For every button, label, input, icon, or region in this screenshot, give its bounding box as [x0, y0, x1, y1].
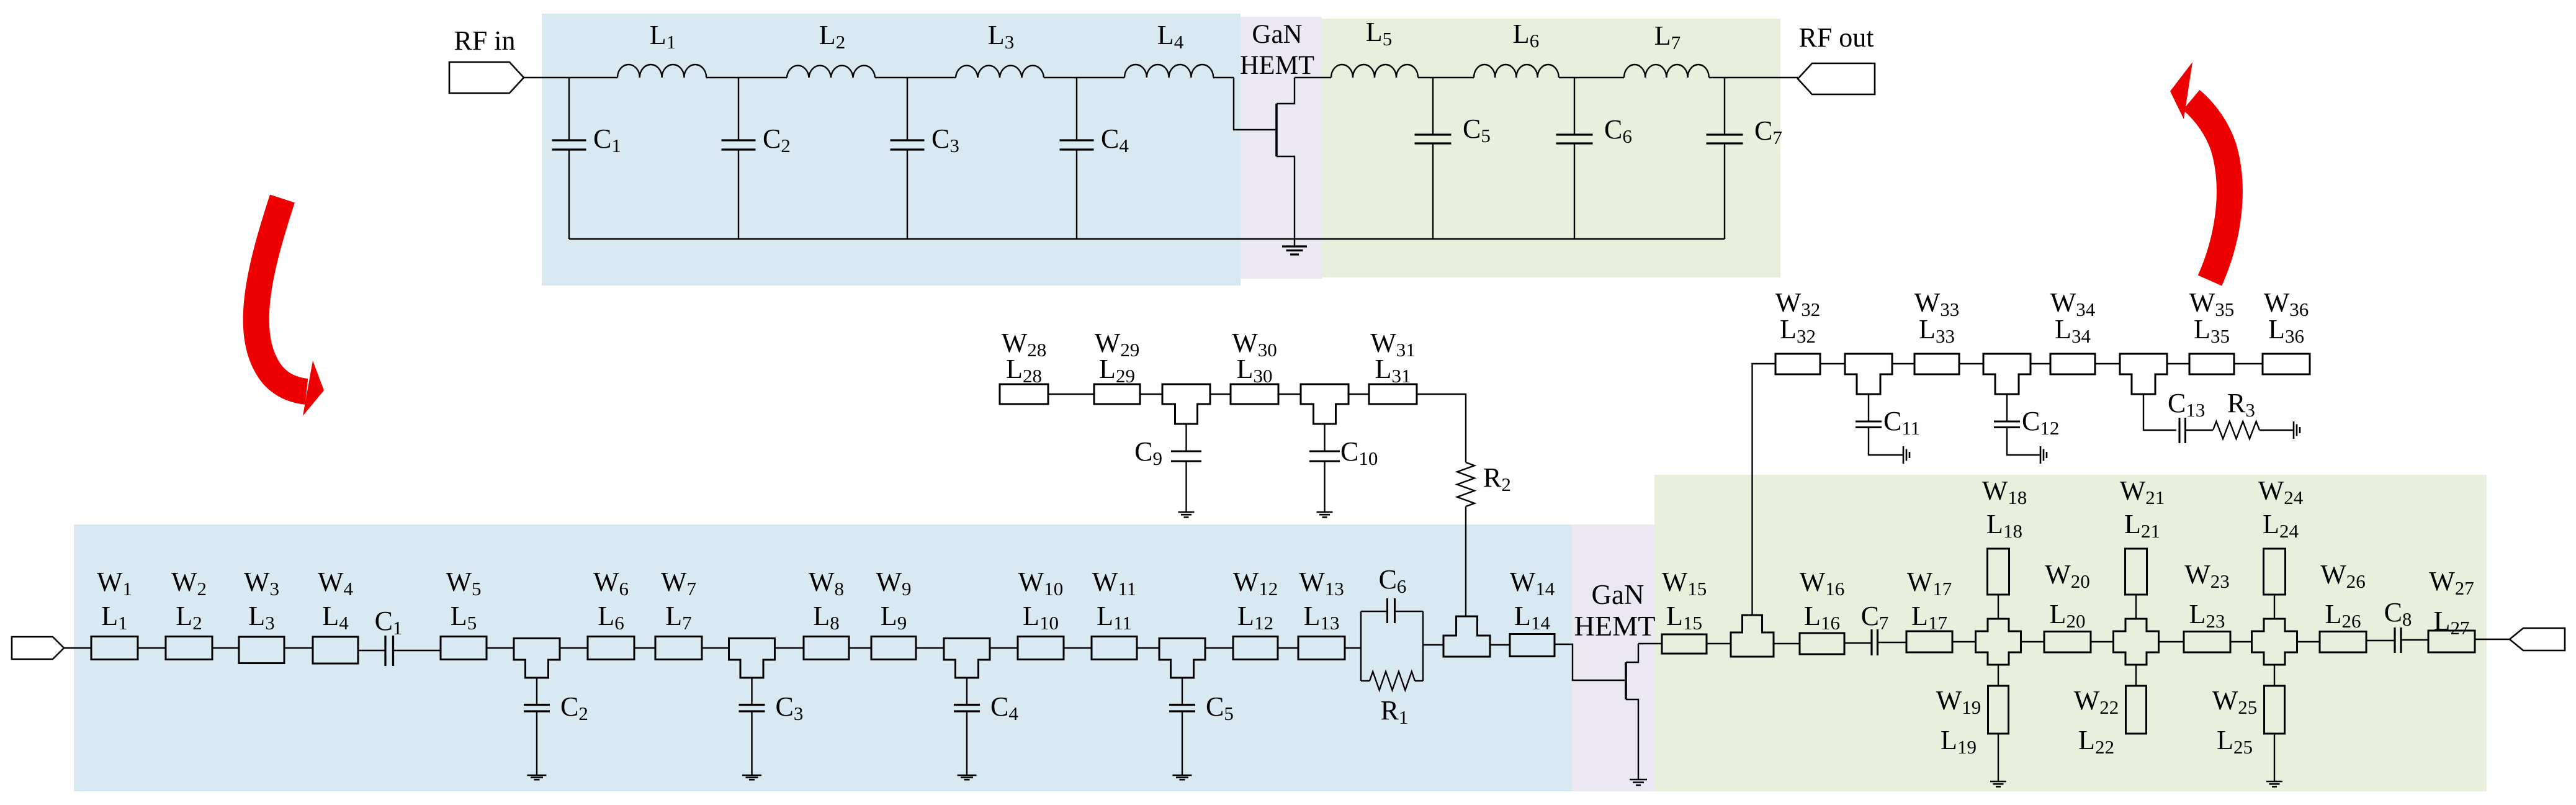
ground under W19	[1990, 781, 2006, 783]
microstrip line W/L3	[239, 637, 284, 663]
inductor L2	[787, 66, 875, 78]
wire W25 to ground	[2274, 734, 2275, 781]
wire W15-T6	[1707, 643, 1731, 644]
wire W35-W36	[2234, 363, 2263, 364]
wire cross to W19	[1998, 664, 1999, 686]
ground under W25	[2266, 781, 2282, 783]
capacitor C6 (in R1C6)	[1386, 598, 1388, 623]
wire L1 to L2	[706, 77, 787, 78]
capacitor C12 (shunt)	[1994, 421, 2020, 423]
wire W5-T1	[487, 647, 514, 649]
inductor L4	[1124, 65, 1213, 78]
wire stub to C2	[536, 678, 537, 705]
parallel R1 C6 network	[1360, 611, 1362, 681]
background: microstrip output network (green)	[1654, 475, 2487, 791]
tee junction T8 (C10)	[1301, 384, 1349, 424]
capacitor C10 (shunt)	[1309, 451, 1340, 452]
wire W16-C7	[1844, 642, 1872, 644]
wire stub to C5	[1182, 678, 1183, 705]
capacitor C7 (shunt)	[1724, 78, 1725, 135]
wire cross to W21	[2135, 595, 2137, 618]
port RF out	[1798, 63, 1875, 94]
cross junction at W24/W25	[2252, 619, 2297, 665]
tee junction T9 (C11)	[1845, 354, 1892, 394]
wire W2-W3	[212, 647, 239, 649]
microstrip line W/L2	[166, 637, 212, 660]
ground under C10	[1317, 511, 1333, 513]
tee junction T10 (C12)	[1983, 354, 2031, 394]
wire W29-T7	[1140, 394, 1162, 395]
wire W11-T4	[1137, 647, 1160, 649]
wire T11-W35	[2167, 363, 2189, 364]
port output (lower)	[2510, 628, 2565, 650]
wire C8-W27	[2401, 639, 2428, 641]
microstrip line W/L15	[1662, 634, 1707, 654]
wire W26-C8	[2366, 640, 2395, 641]
wire W23-X3	[2230, 641, 2251, 642]
tee junction at C5	[1159, 639, 1205, 678]
wire R3 to ground	[2260, 429, 2294, 431]
microstrip line W29/L29	[1094, 384, 1140, 404]
capacitor C8 (series)	[2394, 627, 2395, 653]
tee junction T6 (to drain bias)	[1731, 615, 1774, 657]
tee junction T11 (C13/R3)	[2120, 354, 2167, 394]
wire W4-C1	[358, 650, 385, 651]
wire T1-W6	[560, 647, 588, 649]
wire W14 to gate of U2	[1555, 644, 1626, 680]
wire W12-W13	[1278, 647, 1298, 649]
svg-text:GaN: GaN	[1252, 20, 1302, 49]
wire X1-W20	[2021, 641, 2044, 642]
ground under C3	[742, 775, 761, 776]
microstrip line W/L12	[1233, 637, 1278, 660]
cross junction at W21/W22	[2114, 619, 2159, 665]
ground of U1	[1282, 245, 1307, 247]
wire cross to W25	[2274, 664, 2275, 686]
wire drain U2 to W15	[1638, 643, 1662, 644]
wire T10 to C12	[2006, 394, 2008, 421]
microstrip line W/L5	[441, 637, 487, 660]
ground under C4	[958, 775, 977, 776]
inductor L5	[1331, 65, 1418, 78]
microstrip line W/L13	[1298, 637, 1345, 660]
ground of C11 (rotated)	[1903, 446, 1905, 464]
microstrip line W35/L35	[2189, 354, 2234, 374]
capacitor C7 (series)	[1870, 629, 1872, 655]
wire T5-W14	[1490, 644, 1510, 645]
wire T11 to C13	[2143, 394, 2176, 430]
red arrow (left, pointing down-right)	[256, 199, 307, 392]
capacitor C5 (shunt)	[1169, 704, 1195, 706]
microstrip line W/L20	[2044, 632, 2091, 653]
wire C7-W17	[1878, 642, 1907, 643]
wire T3-W10	[990, 647, 1018, 649]
wire T2-W8	[774, 647, 804, 649]
wire W17-X1	[1952, 641, 1975, 642]
wire L4 to gate of U1	[1213, 77, 1234, 78]
background: microstrip input network (blue)	[74, 524, 1572, 791]
ground under C2	[527, 775, 547, 776]
microstrip line W34/L34	[2050, 354, 2095, 374]
wire X2-W23	[2158, 641, 2184, 642]
ground of R3 (rotated)	[2293, 421, 2295, 439]
wire stub to C3	[751, 678, 752, 705]
wire RF in to L1	[524, 77, 617, 78]
microstrip stub W22	[2126, 686, 2147, 734]
wire T7 to C9	[1185, 424, 1187, 451]
capacitor C6 (shunt)	[1574, 78, 1575, 135]
wire cross to W18	[1998, 595, 1999, 618]
wire W19 to ground	[1998, 734, 1999, 781]
wire stub to C4	[966, 678, 967, 705]
background: output matching network (green)	[1322, 19, 1780, 277]
wire W1-W2	[138, 647, 166, 649]
wire W8-W9	[849, 647, 871, 649]
wire C1-W5	[393, 650, 441, 651]
inductor L6	[1474, 65, 1559, 78]
capacitor C2 (shunt)	[738, 78, 739, 140]
wire L7 to RF out	[1709, 77, 1798, 78]
microstrip line W/L7	[655, 637, 702, 660]
wire W7-T2	[702, 647, 729, 649]
capacitor C2 (shunt)	[524, 704, 550, 706]
microstrip line W/L26	[2320, 632, 2366, 653]
wire W10-W11	[1064, 647, 1092, 649]
tee junction at C3	[729, 639, 775, 678]
microstrip stub W21	[2125, 549, 2147, 595]
ground of U2	[1630, 779, 1647, 781]
microstrip line W/L6	[588, 637, 634, 660]
capacitor C11 (shunt)	[1856, 421, 1882, 423]
capacitor C3 (shunt)	[739, 704, 765, 706]
microstrip line W/L9	[871, 637, 916, 660]
microstrip line W/L16	[1800, 633, 1844, 654]
transistor U1 GaN HEMT (top)	[1234, 78, 1277, 130]
wire W3-W4	[284, 647, 313, 649]
microstrip line W/L1	[91, 637, 138, 660]
wire C13-R3	[2186, 429, 2214, 431]
wire W20-X2	[2091, 641, 2113, 642]
wire W27 to output port	[2475, 639, 2510, 640]
capacitor C1 (shunt)	[568, 78, 570, 140]
wire T9 to C11	[1868, 394, 1869, 421]
wire T9-W33	[1892, 363, 1914, 364]
wire W34-T11	[2095, 363, 2120, 364]
inductor L1	[617, 65, 706, 78]
wire cross to W22	[2135, 664, 2137, 686]
capacitor C4 (shunt)	[954, 704, 980, 706]
microstrip line W32/L32	[1775, 354, 1820, 374]
microstrip line W/L27	[2428, 631, 2475, 652]
microstrip line W31/L31	[1369, 384, 1417, 404]
capacitor C4 (shunt)	[1076, 78, 1077, 140]
background: GaN HEMT region (lavender)	[1241, 17, 1322, 279]
wire W30-T8	[1278, 394, 1301, 395]
wire T4-W12	[1205, 647, 1233, 649]
microstrip line W33/L33	[1914, 354, 1959, 374]
capacitor C3 (shunt)	[907, 78, 908, 140]
port input (lower)	[12, 637, 64, 659]
wire W6-W7	[634, 647, 655, 649]
microstrip line W/L8	[804, 637, 849, 660]
microstrip line W/L17	[1906, 631, 1952, 652]
capacitor C1 (series)	[384, 636, 386, 666]
microstrip line W30/L30	[1231, 384, 1278, 404]
microstrip line W28/L28	[1000, 384, 1048, 404]
cross junction at W18/W19	[1976, 619, 2021, 665]
background: input matching network (blue)	[542, 14, 1241, 286]
svg-text:HEMT: HEMT	[1574, 611, 1656, 642]
ground under C9	[1178, 511, 1195, 513]
resistor R1	[1361, 680, 1370, 681]
wire W31 to R2	[1417, 394, 1466, 462]
tee junction T5 (to gate bias)	[1443, 616, 1490, 657]
resistor R2	[1457, 462, 1474, 506]
capacitor C9 (shunt)	[1171, 451, 1201, 452]
wire X3-W26	[2297, 641, 2320, 642]
ground under C5	[1173, 775, 1192, 776]
microstrip line W/L23	[2184, 632, 2230, 653]
capacitor C13 (series)	[2179, 418, 2181, 443]
ground bus wire (top)	[569, 238, 1725, 240]
wire T7-W30	[1210, 394, 1231, 395]
wire W9-T3	[916, 647, 944, 649]
wire W33-T10	[1959, 363, 1983, 364]
wire T6-W16	[1774, 643, 1800, 644]
wire port to W1	[64, 647, 91, 649]
microstrip line W36/L36	[2263, 354, 2310, 374]
wire R2 to T5 stub	[1465, 506, 1466, 616]
background: GaN HEMT region lower (lavender)	[1572, 524, 1654, 791]
microstrip line W/L14	[1510, 634, 1555, 657]
port RF in	[449, 62, 524, 93]
microstrip stub W18	[1988, 549, 2009, 595]
wire T8 to C10	[1324, 424, 1325, 451]
wire drain of U1 to L5	[1295, 77, 1331, 78]
resistor R3	[2213, 421, 2260, 439]
wire L5 to L6	[1418, 77, 1474, 78]
transistor U2 GaN HEMT (lower)	[1625, 662, 1627, 699]
wire L6 to L7	[1559, 77, 1624, 78]
ground of C12 (rotated)	[2040, 446, 2042, 464]
microstrip stub W25	[2264, 686, 2285, 734]
wire cross to W24	[2274, 595, 2275, 618]
svg-text:RF in: RF in	[454, 25, 515, 56]
inductor L3	[956, 66, 1044, 78]
wire W28-W29	[1048, 394, 1094, 395]
red arrow (right, pointing up-left)	[2191, 100, 2230, 281]
wire T8-W31	[1349, 394, 1369, 395]
wire R1C6 to T5	[1423, 644, 1443, 645]
wire L2 to L3	[875, 77, 956, 78]
capacitor C5 (shunt)	[1432, 78, 1434, 135]
tee junction at C2	[514, 639, 560, 678]
svg-text:GaN: GaN	[1592, 579, 1645, 610]
wire L3 to L4	[1044, 77, 1124, 78]
wire T10-W34	[2031, 363, 2050, 364]
inductor L7	[1624, 65, 1709, 78]
microstrip stub W19	[1988, 686, 2009, 734]
tee junction T7 (C9)	[1162, 384, 1210, 424]
tee junction at C4	[944, 639, 990, 678]
svg-text:HEMT: HEMT	[1240, 51, 1314, 80]
microstrip line W/L4	[313, 637, 358, 663]
wire T6 stub up to drain bias	[1752, 364, 1776, 615]
wire W13-R1C6	[1345, 647, 1361, 649]
microstrip line W/L10	[1018, 637, 1064, 660]
microstrip line W/L11	[1092, 637, 1137, 660]
svg-text:RF out: RF out	[1798, 22, 1874, 53]
wire W32-T9	[1820, 363, 1845, 364]
microstrip stub W24	[2264, 549, 2286, 595]
